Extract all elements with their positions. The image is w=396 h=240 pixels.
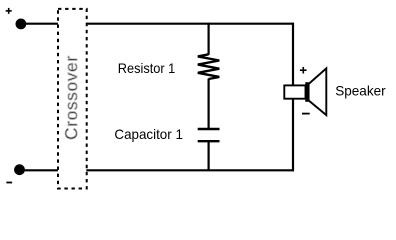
svg-text:Speaker: Speaker [335, 83, 386, 99]
capacitor C1 bottom plate [198, 140, 220, 142]
wire [208, 23, 210, 55]
speaker LS1 driver [284, 85, 305, 98]
wire [86, 23, 294, 25]
terminal TP2 (-) [14, 164, 25, 175]
wire [20, 169, 58, 171]
wire [208, 79, 210, 130]
wire [86, 169, 294, 171]
crossover box [58, 9, 87, 189]
speaker - label [302, 113, 310, 115]
terminal + label [6, 8, 12, 14]
terminal - label [6, 182, 12, 184]
wire [21, 23, 58, 25]
capacitor C1 top plate [198, 128, 220, 130]
speaker + label [300, 67, 307, 74]
resistor R1 [198, 54, 220, 79]
speaker LS1 magnet bar [305, 82, 308, 102]
svg-text:Capacitor 1: Capacitor 1 [114, 126, 183, 142]
svg-text:Resistor 1: Resistor 1 [118, 60, 176, 76]
svg-text:Crossover: Crossover [62, 55, 81, 140]
wire [208, 141, 210, 170]
wire [292, 23, 294, 172]
terminal TP1 (+) [16, 19, 27, 30]
speaker LS1 horn [309, 68, 327, 115]
